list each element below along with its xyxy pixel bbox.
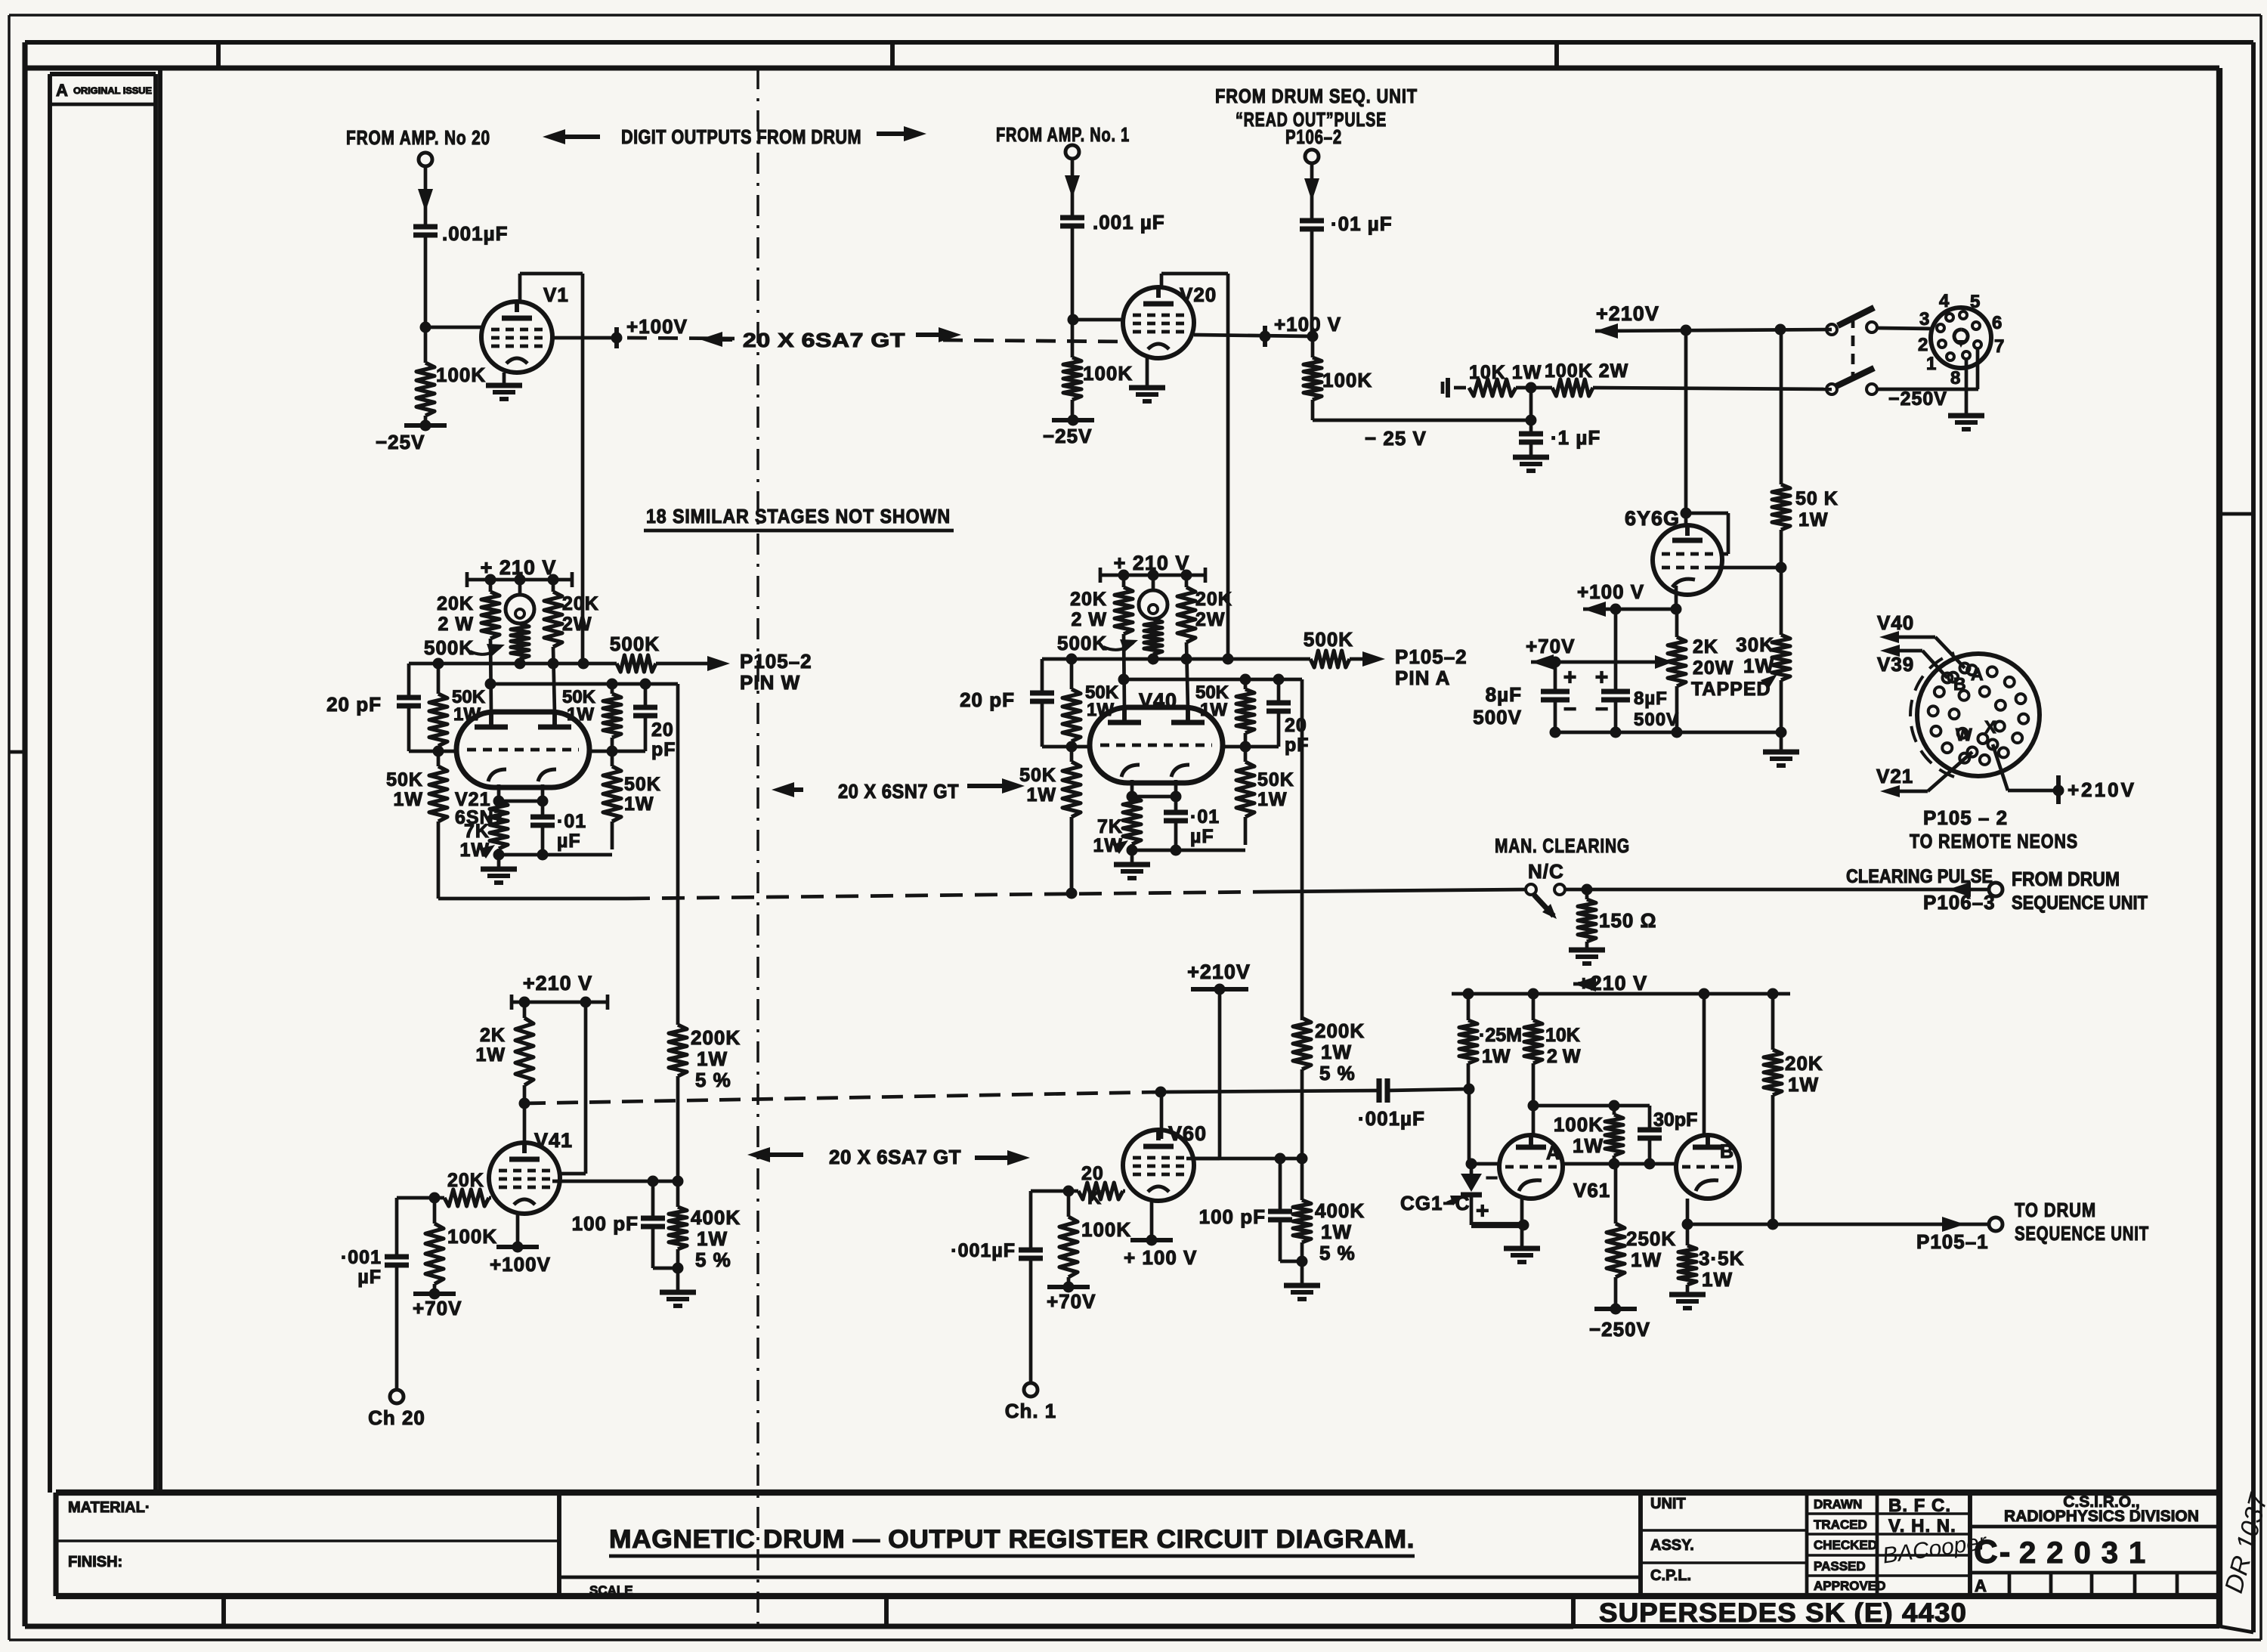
- svg-text:·01: ·01: [557, 811, 586, 832]
- svg-text:V1: V1: [543, 283, 569, 306]
- svg-text:V21: V21: [1876, 765, 1913, 787]
- label V41: [534, 1129, 573, 1152]
- wire plate row A (V40): [1042, 654, 1234, 665]
- svg-text:1W: 1W: [1798, 509, 1829, 531]
- wire pin B to V39: [1877, 645, 1947, 678]
- svg-text:CG1−C: CG1−C: [1400, 1192, 1470, 1214]
- node P105-2 W (V21): [740, 650, 812, 694]
- svg-text:CLEARING PULSE: CLEARING PULSE: [1846, 866, 1993, 887]
- terminal input amp1: [1065, 145, 1079, 159]
- node FROM DRUM SEQ. UNIT readout: [1215, 85, 1418, 148]
- resistor 30K 1W (divider bottom): [1736, 568, 1790, 732]
- svg-text:+210 V: +210 V: [523, 972, 592, 995]
- wire dashed stage chain V41-V60: [524, 1092, 1161, 1103]
- svg-text:A: A: [56, 81, 68, 100]
- wire output row (V60): [1186, 1153, 1308, 1165]
- wire cross-coupling corner down (V21): [676, 684, 680, 1025]
- wire cap to V61 grid node: [1387, 1089, 1469, 1091]
- resistor 2K 20W TAPPED: [1668, 609, 1771, 732]
- wire plate-A row: [1533, 1100, 1650, 1112]
- svg-text:MAN. CLEARING: MAN. CLEARING: [1495, 834, 1630, 857]
- svg-text:1W: 1W: [567, 704, 594, 725]
- tube V21 6SN7 body (V21): [456, 712, 589, 787]
- svg-text:SCALE: SCALE: [589, 1583, 633, 1598]
- resistor 20K 2W left (V21): [437, 580, 499, 713]
- label A: [1546, 1143, 1560, 1164]
- svg-text:A: A: [1975, 1576, 1987, 1595]
- tube V20 6SA7: [1123, 287, 1194, 358]
- svg-text:20: 20: [1081, 1163, 1104, 1184]
- label P105-2 TO REMOTE NEONS: [1910, 806, 2078, 852]
- wire chain to coupling cap: [1161, 1091, 1379, 1092]
- wire dashed digit line V1-V20: [627, 338, 1123, 342]
- wire grid-A down: [1468, 1089, 1471, 1164]
- svg-text:·01 µF: ·01 µF: [1331, 212, 1393, 235]
- terminal Ch. 1 (V60): [1005, 1383, 1057, 1422]
- svg-text:PIN W: PIN W: [740, 671, 800, 694]
- resistor 7K 1W cathode (V21): [460, 801, 509, 861]
- svg-text:TO DRUM: TO DRUM: [2015, 1199, 2096, 1221]
- svg-text:CHECKED: CHECKED: [1814, 1538, 1877, 1552]
- neon indicator (V21): [506, 580, 534, 623]
- svg-text:500V: 500V: [1634, 710, 1679, 730]
- svg-text:X: X: [1984, 717, 1996, 737]
- svg-text:P106–2: P106–2: [1285, 125, 1342, 148]
- label FROM DRUM SEQUENCE UNIT: [2012, 868, 2148, 914]
- svg-text:µF: µF: [357, 1267, 382, 1288]
- svg-text:20K: 20K: [1195, 589, 1232, 610]
- svg-text:50K: 50K: [386, 769, 423, 790]
- svg-text:7: 7: [1994, 336, 2005, 357]
- node +70V (V60): [1047, 1282, 1096, 1313]
- label .01uF: [1331, 212, 1393, 235]
- label tube (V21): [455, 789, 506, 828]
- svg-text:TO REMOTE NEONS: TO REMOTE NEONS: [1910, 830, 2078, 852]
- svg-text:400K: 400K: [691, 1206, 741, 1229]
- resistor 3.5K 1W: [1678, 1224, 1744, 1295]
- svg-text:8µF: 8µF: [1634, 688, 1668, 709]
- node +100V (V1): [611, 315, 688, 348]
- resistor 20K grid (V60): [1069, 1163, 1125, 1208]
- tube V1 6SA7: [481, 302, 552, 373]
- svg-text:MATERIAL·: MATERIAL·: [68, 1499, 150, 1516]
- svg-text:20K: 20K: [1785, 1052, 1823, 1075]
- svg-text:100 pF: 100 pF: [1199, 1205, 1266, 1228]
- junction plate-A node: [1528, 1100, 1539, 1112]
- label DIGIT OUTPUTS FROM DRUM with arrows: [543, 125, 926, 148]
- resistor 2K 1W (V41): [476, 1002, 534, 1103]
- wire socket pin7 bracket: [1976, 348, 1980, 389]
- svg-text:20 X 6SA7 GT: 20 X 6SA7 GT: [743, 329, 905, 351]
- wire pin W to V21: [1876, 752, 1972, 797]
- tube V41 6SA7 body: [489, 1143, 560, 1214]
- resistor 50K 1W lower-right (V21): [603, 751, 661, 849]
- label 20 X 6SN7 GT (middle): [772, 778, 1025, 803]
- svg-text:7K: 7K: [1097, 816, 1123, 837]
- svg-text:1W: 1W: [1702, 1268, 1733, 1291]
- resistor 100K (V41): [425, 1198, 497, 1294]
- wire cross-coupling corner down (V40): [1301, 679, 1304, 1020]
- svg-text:5 %: 5 %: [695, 1069, 731, 1091]
- wire cathode +100V (V41): [516, 1214, 520, 1247]
- wire clearing line right solid: [1270, 889, 1526, 892]
- ground regulator: [1763, 732, 1799, 766]
- svg-text:2K: 2K: [480, 1025, 506, 1046]
- ground 3.5K: [1669, 1295, 1706, 1308]
- resistor 7K 1W cathode (V40): [1093, 797, 1142, 856]
- label .001uF (V20): [1093, 211, 1165, 234]
- resistor 10K 2W: [1524, 994, 1581, 1106]
- resistor 50K 1W lower-left (V40): [1019, 747, 1081, 894]
- ground V20 cathode: [1129, 358, 1165, 401]
- svg-text:C-: C-: [1974, 1533, 2012, 1570]
- node +210V (top right): [1595, 302, 1832, 339]
- label B: [1720, 1141, 1734, 1162]
- svg-text:pF: pF: [1285, 735, 1310, 756]
- svg-text:− 25 V: − 25 V: [1365, 427, 1427, 450]
- wire plate-A lead: [1532, 1106, 1536, 1135]
- node FROM AMP. No 20: [346, 126, 490, 149]
- svg-text:−: −: [1486, 1166, 1498, 1190]
- resistor 400K 1W 5% (V41): [669, 1181, 741, 1271]
- title block frame: [56, 1493, 2219, 1596]
- wire grid row (V21): [409, 746, 645, 757]
- wire cathode bottom row (V40): [1127, 845, 1246, 856]
- wire input V20 with arrow: [1065, 159, 1080, 216]
- connector P105-2 body: [1910, 653, 2040, 777]
- svg-text:10K 1W: 10K 1W: [1469, 362, 1542, 383]
- wire grid to coupling cap (V60): [1031, 1191, 1069, 1248]
- wire top cap (V60): [1160, 1092, 1164, 1139]
- wire V1 top cap to V21 plate node: [520, 274, 583, 664]
- label V61: [1573, 1179, 1610, 1202]
- svg-text:10K: 10K: [1545, 1025, 1580, 1046]
- valve socket octal: [1931, 308, 1991, 368]
- ground 150 ohm: [1569, 950, 1605, 964]
- svg-text:1W: 1W: [1200, 700, 1227, 720]
- svg-text:A: A: [1546, 1143, 1560, 1164]
- svg-text:−25V: −25V: [1043, 425, 1092, 447]
- svg-text:V40: V40: [1877, 611, 1914, 634]
- svg-text:500V: 500V: [1473, 706, 1522, 729]
- connector pins P105-2: [1928, 664, 2029, 765]
- svg-text:APPROVED: APPROVED: [1814, 1579, 1885, 1593]
- resistor 50K 1W (divider top): [1772, 329, 1839, 568]
- resistor 50K 1W upper-left (V21): [429, 664, 486, 751]
- svg-text:Ch 20: Ch 20: [368, 1406, 425, 1429]
- capacitor 8uF 500V (left): [1473, 662, 1577, 732]
- svg-text:20 X 6SA7 GT: 20 X 6SA7 GT: [829, 1146, 961, 1168]
- svg-text:W: W: [1956, 725, 1973, 744]
- svg-text:100K: 100K: [436, 364, 486, 386]
- node +100 V (V20): [1260, 313, 1342, 347]
- svg-text:+100 V: +100 V: [1274, 313, 1341, 336]
- svg-text:50K: 50K: [1257, 769, 1294, 790]
- capacitor .001uF (V41): [341, 1247, 409, 1389]
- title block texts: [68, 1493, 2199, 1598]
- wire V1 output +100V: [552, 336, 617, 340]
- svg-text:5 %: 5 %: [695, 1248, 731, 1271]
- fold line vertical dash-dot center: [756, 68, 759, 1625]
- node +70V (6Y6G): [1526, 635, 1673, 670]
- node P105-2 A (V40): [1395, 645, 1468, 689]
- svg-text:20K: 20K: [447, 1170, 484, 1191]
- label V40 designator: [1139, 689, 1177, 712]
- node -25V (V20): [1043, 415, 1094, 448]
- svg-text:250K: 250K: [1626, 1227, 1676, 1250]
- junction 6Y6G screen bracket: [1681, 508, 1692, 519]
- wire output row (V41): [552, 1176, 684, 1187]
- resistor 100K (V20 grid leak): [1063, 320, 1081, 420]
- resistor 50K 1W lower-right (V40): [1236, 747, 1294, 845]
- diode CG1-C: [1400, 1164, 1498, 1225]
- wire plate feed (V60): [1192, 989, 1220, 1159]
- svg-text:500K: 500K: [610, 633, 660, 655]
- svg-text:22031: 22031: [2019, 1536, 2156, 1570]
- resistor 100K 1W (V61 coupling): [1554, 1106, 1623, 1164]
- revision column: [50, 74, 156, 1493]
- svg-text:4: 4: [1939, 291, 1950, 311]
- svg-text:2 W: 2 W: [1072, 609, 1107, 630]
- node +100V (6Y6G): [1577, 580, 1682, 617]
- svg-text:5: 5: [1970, 292, 1981, 312]
- connector tick 10K input: [1443, 378, 1466, 398]
- capacitor .001uF (V60): [951, 1240, 1043, 1382]
- svg-text:B. F C.: B. F C.: [1888, 1496, 1951, 1516]
- svg-text:+100 V: +100 V: [1577, 580, 1644, 603]
- wire 6Y6G grid to divider: [1713, 566, 1781, 570]
- svg-text:+ 100 V: + 100 V: [1124, 1246, 1197, 1269]
- svg-text:P105 – 2: P105 – 2: [1923, 806, 2008, 829]
- junction V1 grid: [420, 322, 431, 333]
- svg-text:20K: 20K: [437, 593, 474, 614]
- ground cathode (V40): [1114, 850, 1150, 878]
- junction V60 chain: [1155, 1087, 1167, 1098]
- tube V61 section B: [1676, 1135, 1740, 1199]
- svg-text:20: 20: [651, 719, 674, 741]
- drawing title: [609, 1525, 1415, 1556]
- label 20 X 6SA7 GT (bottom): [747, 1146, 1030, 1168]
- resistor 100K (readout): [1304, 336, 1322, 420]
- wire input V1 with arrow: [418, 166, 433, 224]
- svg-text:V40: V40: [1139, 689, 1177, 712]
- terminal input Ch20 amp: [419, 153, 432, 166]
- svg-text:18 SIMILAR STAGES NOT SHOWN: 18 SIMILAR STAGES NOT SHOWN: [646, 505, 951, 527]
- capacitor .01uF cathode (V21): [530, 801, 586, 855]
- svg-text:RADIOPHYSICS DIVISION: RADIOPHYSICS DIVISION: [2004, 1508, 2199, 1525]
- svg-text:1W: 1W: [624, 794, 654, 815]
- svg-text:100K: 100K: [1083, 362, 1133, 385]
- label 6Y6G: [1625, 507, 1680, 530]
- svg-text:K: K: [1087, 1187, 1102, 1208]
- wire cathode-A: [1520, 1199, 1524, 1248]
- svg-text:TRACED: TRACED: [1814, 1517, 1867, 1532]
- wire clearing line dashed: [627, 892, 1270, 899]
- svg-text:PIN A: PIN A: [1395, 667, 1450, 689]
- wire regulator bottom rail: [1550, 727, 1787, 738]
- capacitor .01uF cathode (V40): [1164, 797, 1220, 850]
- resistor 10K 1W: [1469, 362, 1542, 396]
- junction 10K/100K2W: [1516, 382, 1552, 421]
- resistor 100K (V1 grid leak): [416, 327, 435, 425]
- svg-text:N/C: N/C: [1528, 860, 1564, 883]
- svg-text:+: +: [1563, 665, 1578, 690]
- wire V20 grid: [1073, 318, 1123, 322]
- svg-text:+70V: +70V: [1526, 635, 1575, 657]
- svg-text:20 pF: 20 pF: [326, 693, 382, 716]
- label 18 SIMILAR STAGES NOT SHOWN: [644, 505, 954, 531]
- svg-text:FROM DRUM SEQ. UNIT: FROM DRUM SEQ. UNIT: [1215, 85, 1418, 107]
- svg-text:·001µF: ·001µF: [1358, 1107, 1425, 1130]
- resistor 500K output (V21): [583, 633, 730, 672]
- svg-text:+70V: +70V: [413, 1297, 462, 1319]
- svg-text:100 pF: 100 pF: [572, 1212, 639, 1235]
- svg-text:A: A: [1971, 664, 1984, 684]
- svg-text:3: 3: [1919, 309, 1930, 329]
- svg-text:·1 µF: ·1 µF: [1551, 426, 1601, 449]
- capacitor 20pF left (V40): [960, 659, 1054, 747]
- junction -25V bus cap: [1526, 415, 1537, 426]
- svg-text:+210V: +210V: [2068, 778, 2136, 801]
- wire -25V bus: [1313, 420, 1531, 450]
- svg-text:30pF: 30pF: [1653, 1109, 1697, 1131]
- svg-text:+100V: +100V: [626, 315, 688, 338]
- svg-text:B: B: [1720, 1141, 1734, 1162]
- svg-text:1W: 1W: [1321, 1041, 1352, 1063]
- resistor 100K (V60): [1059, 1191, 1131, 1287]
- svg-text:150 Ω: 150 Ω: [1599, 909, 1656, 932]
- svg-text:1W: 1W: [394, 789, 424, 810]
- svg-text:50 K: 50 K: [1795, 488, 1839, 509]
- ground V1 cathode: [486, 373, 522, 399]
- svg-text:TAPPED: TAPPED: [1691, 679, 1771, 700]
- resistor 50K 1W lower-left (V21): [386, 751, 447, 899]
- label 100K (readout): [1322, 369, 1372, 391]
- wire -250V line: [1877, 388, 1978, 410]
- svg-text:C.P.L.: C.P.L.: [1650, 1567, 1691, 1584]
- terminal P106-2: [1305, 150, 1319, 163]
- svg-text:1W: 1W: [1321, 1220, 1352, 1243]
- wire 6Y6G cathode: [1675, 586, 1678, 609]
- resistor 150 ohm: [1578, 889, 1656, 950]
- resistor 500K output (V40): [1228, 628, 1385, 667]
- ground .1uF: [1513, 457, 1549, 471]
- node +70V (V41): [413, 1288, 462, 1320]
- junction 210V/6Y6 cap: [1681, 325, 1692, 336]
- tube V61 section A: [1499, 1135, 1563, 1199]
- svg-text:PASSED: PASSED: [1814, 1559, 1866, 1573]
- svg-text:200K: 200K: [1315, 1019, 1365, 1042]
- wire V61 grid row: [1466, 1159, 1680, 1170]
- svg-text:2 W: 2 W: [1547, 1046, 1581, 1067]
- svg-text:400K: 400K: [1315, 1199, 1365, 1222]
- svg-text:Ch. 1: Ch. 1: [1005, 1400, 1057, 1422]
- junction 150 ohm tap: [1582, 884, 1593, 896]
- switch lower pole: [1826, 368, 1877, 394]
- svg-text:20 pF: 20 pF: [960, 688, 1015, 711]
- junction readout/+100V node: [1307, 331, 1319, 342]
- capacitor 20pF right (V21): [633, 684, 676, 760]
- svg-text:20 X 6SN7 GT: 20 X 6SN7 GT: [838, 780, 959, 803]
- resistor .25M 1W: [1459, 994, 1522, 1089]
- svg-text:·001µF: ·001µF: [951, 1240, 1016, 1261]
- svg-text:+210V: +210V: [1187, 961, 1251, 983]
- capacitor 100pF (V60): [1199, 1159, 1308, 1267]
- svg-text:20K: 20K: [1070, 589, 1107, 610]
- svg-text:SEQUENCE UNIT: SEQUENCE UNIT: [2015, 1222, 2149, 1245]
- junction clearing/V40 grid resistor: [1066, 888, 1078, 899]
- svg-text:20K: 20K: [562, 593, 599, 614]
- svg-text:200K: 200K: [691, 1026, 741, 1049]
- svg-text:3·5K: 3·5K: [1699, 1247, 1744, 1270]
- svg-text:500K: 500K: [1304, 628, 1353, 651]
- svg-text:ORIGINAL ISSUE: ORIGINAL ISSUE: [73, 85, 152, 96]
- resistor 50K 1W upper-right (V21): [562, 684, 621, 751]
- node +210V rail (V41): [512, 972, 608, 1010]
- capacitor 20pF right (V40): [1266, 679, 1310, 756]
- node +210V rail (V61): [1452, 972, 1790, 1000]
- terminal P106-3: [1989, 883, 2003, 896]
- svg-text:V20: V20: [1180, 283, 1217, 306]
- svg-text:8µF: 8µF: [1486, 683, 1522, 706]
- svg-text:500K: 500K: [424, 636, 474, 659]
- svg-text:+70V: +70V: [1047, 1290, 1096, 1313]
- svg-text:SEQUENCE UNIT: SEQUENCE UNIT: [2012, 893, 2148, 914]
- capacitor 8uF 500V (right): [1595, 609, 1679, 732]
- svg-text:B: B: [1953, 674, 1967, 694]
- drawing area left border: [158, 68, 162, 1493]
- resistor 50K 1W upper-left (V40): [1062, 659, 1119, 747]
- svg-text:1W: 1W: [453, 704, 481, 725]
- resistor 20K 2W right (V40): [1177, 575, 1232, 709]
- svg-text:+: +: [1595, 665, 1610, 690]
- svg-text:V39: V39: [1877, 653, 1914, 676]
- wire plate feed (V41): [558, 1002, 586, 1174]
- label 20 X 6SA7 GT (top): [700, 327, 961, 351]
- socket pin labels: [1918, 291, 2005, 388]
- socket pins 1-8: [1937, 311, 1981, 360]
- svg-text:1W: 1W: [1027, 784, 1057, 806]
- svg-text:·001: ·001: [341, 1247, 382, 1268]
- capacitor .1uF: [1519, 420, 1601, 457]
- svg-text:P105–2: P105–2: [740, 650, 812, 673]
- capacitor .001uF coupling to V61: [1358, 1078, 1425, 1130]
- wire cathode bottom row (V21): [493, 849, 613, 861]
- resistor 200K 1W 5% (V41): [669, 1025, 741, 1181]
- label MAN. CLEARING: [1495, 834, 1630, 883]
- wire grid to coupling cap (V41): [397, 1198, 435, 1255]
- capacitor .001uF (V20 input): [1060, 218, 1084, 320]
- switch gang dashed link: [1851, 317, 1855, 378]
- svg-text:1W: 1W: [1482, 1046, 1511, 1067]
- pin labels A B W X: [1953, 664, 1996, 744]
- label V20: [1180, 283, 1217, 306]
- resistor 100K 2W: [1545, 360, 1832, 396]
- wire V1 grid: [425, 326, 481, 329]
- wire grid row (V40): [1042, 741, 1279, 753]
- label .001uF: [442, 222, 508, 245]
- wire cathode +100V (V60): [1150, 1201, 1154, 1240]
- svg-text:FINISH:: FINISH:: [68, 1554, 122, 1570]
- capacitor .001uF (V1 input): [413, 227, 438, 327]
- svg-text:DIGIT OUTPUTS FROM DRUM: DIGIT OUTPUTS FROM DRUM: [621, 125, 861, 148]
- wire V20 top cap to V40 plate node: [1161, 274, 1228, 659]
- svg-text:20W: 20W: [1693, 657, 1733, 679]
- wire pin X to +210V: [1993, 744, 2136, 804]
- node +100V (V41): [490, 1242, 551, 1276]
- svg-text:50K: 50K: [624, 774, 661, 795]
- svg-text:1W: 1W: [1257, 789, 1288, 810]
